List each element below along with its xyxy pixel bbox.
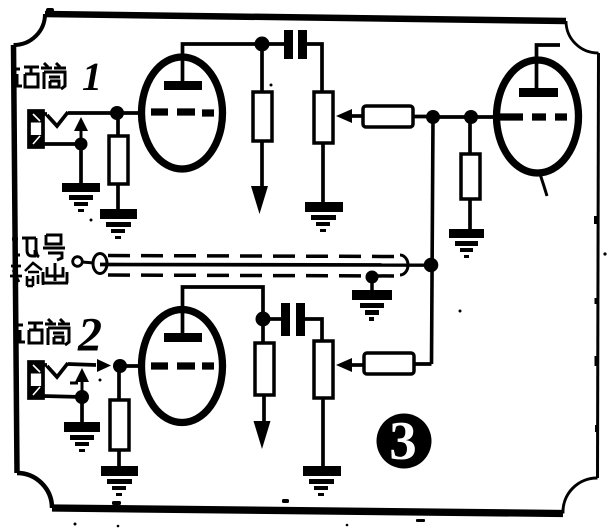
resistor grid leak V3 xyxy=(461,154,480,199)
wire plate lead V2 to coupling node xyxy=(183,287,264,334)
junction plate node ch1 xyxy=(255,37,270,52)
arrow to supply ch1 xyxy=(251,186,268,214)
wire junction to capacitor ch2 xyxy=(268,317,281,321)
capacitor coupling ch1 xyxy=(284,30,307,59)
wire plate resistor top lead ch2 xyxy=(261,324,265,343)
wire jack2 to grid V2 xyxy=(43,364,141,366)
ground shield xyxy=(352,290,392,321)
wire mixing resistor to bus ch2 xyxy=(414,362,432,366)
wire bus to grid V3 xyxy=(433,115,497,119)
wire plate resistor top lead ch1 xyxy=(260,49,264,92)
wire terminal to cable xyxy=(82,262,94,263)
triode V3 xyxy=(497,60,579,173)
wire jack2 sleeve xyxy=(43,396,82,397)
junction cable to bus xyxy=(424,258,439,273)
node signal output terminal xyxy=(73,257,83,267)
triode V1 xyxy=(142,57,223,169)
ground pot ch1 xyxy=(305,202,343,232)
arrow to supply ch2 xyxy=(254,421,271,449)
wire sleeve to ground xyxy=(79,144,83,183)
microphone jack J1 xyxy=(29,111,68,147)
figure number badge 3 xyxy=(377,414,432,469)
resistor grid leak ch2 xyxy=(110,400,129,450)
ground sleeve ch2 xyxy=(64,422,100,452)
plug tip arrow J1 xyxy=(74,117,88,145)
junction grid node V3 xyxy=(464,110,478,124)
label MIC 1 (hand-drawn 话筒 + italic 1) xyxy=(14,63,66,89)
wiper arrow ch1 xyxy=(336,109,364,123)
resistor mixing ch2 xyxy=(364,353,414,374)
label signal output (hand-drawn 讯号 / 输出) xyxy=(10,235,68,286)
potentiometer volume ch1 xyxy=(314,92,333,143)
ground grid resistor V3 xyxy=(449,229,484,258)
wire plate resistor bottom lead ch2 xyxy=(262,395,266,430)
junction plate node ch2 xyxy=(256,312,271,327)
junction grid node ch2 xyxy=(113,359,127,373)
label MIC 2 (hand-drawn 话筒 + 2) xyxy=(17,319,70,345)
wire jack1 sleeve xyxy=(43,142,81,146)
wire plate lead V1 to top rail xyxy=(183,44,285,82)
wire shield to ground xyxy=(370,277,374,290)
junction bus top xyxy=(426,110,440,124)
junction sleeve ch2 xyxy=(75,390,89,404)
arrow on grid wire ch2 xyxy=(97,359,111,372)
wire jack1 to grid V1 xyxy=(43,113,141,114)
ground pot ch2 xyxy=(303,466,341,496)
wire grid resistor leads ch2 xyxy=(117,372,121,466)
junction sleeve ch1 xyxy=(75,138,88,151)
wire capacitor to pot ch2 xyxy=(305,319,322,341)
wire sleeve to ground ch2 xyxy=(80,397,84,422)
wire plate resistor bottom lead ch1 xyxy=(260,141,264,196)
wire grid resistor leads ch1 xyxy=(116,119,120,209)
ground grid resistor ch2 xyxy=(101,466,138,496)
wire plate lead V3 to supply stub xyxy=(537,45,561,88)
wire capacitor to pot ch1 xyxy=(307,44,322,92)
resistor mixing ch1 xyxy=(363,106,413,127)
junction shield ground xyxy=(366,271,379,284)
wire mixing bus vertical xyxy=(432,117,434,364)
wire pot bottom ch1 xyxy=(321,143,325,202)
ground grid resistor ch1 xyxy=(100,209,137,239)
plug tip arrow J2 xyxy=(70,368,89,396)
triode V2 xyxy=(142,310,223,423)
resistor plate load ch1 xyxy=(253,92,272,141)
wire mixing resistor to bus ch1 xyxy=(413,115,433,119)
wire pot bottom ch2 xyxy=(321,398,325,466)
shielded cable xyxy=(93,254,430,277)
wire grid resistor V3 leads xyxy=(468,123,472,229)
potentiometer volume ch2 xyxy=(314,341,333,398)
junction grid node ch1 xyxy=(110,106,124,120)
capacitor coupling ch2 xyxy=(281,303,305,336)
wiper arrow ch2 xyxy=(336,358,364,372)
resistor grid leak ch1 xyxy=(109,136,128,184)
resistor plate load ch2 xyxy=(255,343,274,395)
ground sleeve ch1 xyxy=(62,183,100,212)
microphone jack J2 xyxy=(29,362,68,398)
wire cathode stub V3 xyxy=(540,174,547,196)
